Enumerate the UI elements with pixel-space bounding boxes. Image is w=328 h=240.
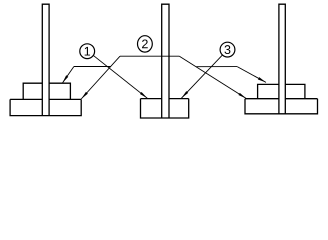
center base plate [141,99,189,118]
balloon 1 digit [85,47,90,56]
balloon 3 digit [224,45,230,54]
left lower tier plates [10,99,81,115]
balloon 2 circle [138,36,153,52]
left upper tier plates [23,83,70,99]
balloon 2 right branch to right lower plate corner [179,56,246,98]
balloon 3 circle [220,42,235,57]
left post (shaft) [42,4,49,115]
right post (shaft) [279,4,285,114]
balloon 2 right sub-branch horizontal [196,66,237,68]
balloon 2 right sub-branch arrow to right upper plate [237,67,266,83]
balloon 2 horizontal leader [120,55,179,57]
center post (shaft) [162,4,169,118]
balloon 2 left sub-branch arrow to left upper plate [62,67,74,84]
leader from balloon 1 to center base left plate [93,55,147,98]
balloon 2 left branch to left lower plate corner [81,56,120,99]
leader from balloon 3 to center base right plate [181,55,222,98]
balloon 1 circle [80,44,95,59]
right lower tier plates [245,99,318,114]
balloon 2 digit [142,39,148,48]
right upper tier plates [258,84,305,98]
balloon 2 left sub-branch horizontal [74,66,111,68]
